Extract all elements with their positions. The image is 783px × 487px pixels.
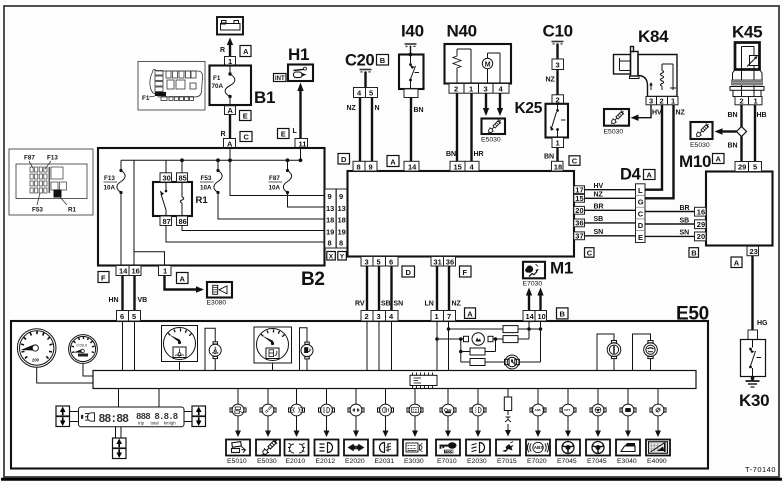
svg-text:SB: SB [680, 217, 690, 224]
wire tachometer to bus [83, 363, 93, 376]
code box D [402, 266, 415, 277]
ground at C20 [360, 70, 372, 88]
svg-text:ABS: ABS [534, 445, 544, 450]
svg-text:B2: B2 [301, 269, 325, 290]
svg-text:C: C [638, 209, 644, 218]
resistor in row3 [470, 348, 485, 355]
lamp column E2020 [344, 389, 368, 466]
pin 23 bottom [747, 246, 759, 256]
svg-text:E2010: E2010 [286, 458, 306, 465]
wire NZ pin15 to D4-G [585, 192, 636, 199]
svg-text:D: D [406, 268, 412, 277]
svg-text:N: N [375, 105, 380, 112]
temperature gauge [162, 326, 198, 362]
wire row4 to clock [461, 329, 541, 362]
svg-text:18: 18 [554, 162, 562, 171]
svg-text:SN: SN [594, 229, 604, 236]
code box C [569, 156, 580, 166]
code box D [338, 154, 350, 165]
svg-text:14: 14 [408, 162, 417, 171]
pin 16 left [695, 207, 707, 216]
svg-text:E5030: E5030 [690, 142, 710, 149]
svg-text:SN: SN [394, 301, 404, 308]
pin 14 top [404, 161, 419, 171]
wire BN splice to M10-29 [728, 137, 742, 162]
svg-text:E5030: E5030 [481, 137, 501, 144]
button down right [192, 417, 206, 427]
wire N C20-5 to pin 9 [372, 98, 380, 162]
svg-text:1: 1 [469, 85, 473, 94]
wire N40-3 ground arrow [483, 93, 489, 116]
wire HB K45-1 to M10-5 [755, 105, 767, 162]
svg-text:SB: SB [594, 216, 604, 223]
fuel gauge [254, 327, 292, 363]
wire branch to pin 1 [134, 252, 165, 266]
code box C [240, 132, 252, 142]
wire N40-4 ground arrow [497, 93, 503, 116]
svg-text:C: C [587, 248, 593, 257]
svg-text:CITY: CITY [564, 408, 570, 412]
pin 86 [177, 216, 188, 226]
resistor in row1 [503, 326, 518, 333]
wire HN pin14 to E50 pin 6 [109, 276, 123, 311]
svg-text:19: 19 [338, 227, 346, 236]
wire BN I40 to pin 14 [411, 98, 424, 162]
pin 3 top [373, 311, 386, 322]
svg-text:88:88: 88:88 [99, 413, 130, 426]
svg-text:F13: F13 [47, 155, 58, 162]
code box A [387, 156, 399, 167]
svg-text:RV: RV [355, 301, 365, 308]
lamp column E2010 [285, 389, 309, 466]
svg-text:29: 29 [697, 220, 705, 229]
code box A [731, 257, 742, 268]
lamp column E2031 [374, 389, 398, 466]
svg-text:E3030: E3030 [404, 458, 424, 465]
ground at I40 [405, 44, 417, 46]
resistor in row2 [503, 336, 518, 343]
display headlamp icon [81, 413, 95, 421]
pin 14 top [523, 311, 535, 322]
pin 87 [160, 216, 172, 226]
svg-text:F: F [101, 273, 106, 282]
code box A [465, 308, 476, 319]
svg-text:8: 8 [357, 162, 361, 171]
control unit box [348, 171, 575, 257]
svg-text:NZ: NZ [452, 301, 462, 308]
wire F53 output to pin row 18 [218, 193, 325, 220]
wire pin4 to bus [391, 321, 393, 371]
lamp column E7045 city1 [556, 389, 580, 466]
svg-text:B: B [380, 56, 386, 65]
svg-text:ABS: ABS [535, 408, 541, 412]
svg-text:K30: K30 [739, 391, 769, 410]
svg-text:A: A [228, 106, 234, 115]
svg-text:5: 5 [369, 89, 373, 98]
button up right [192, 406, 206, 416]
svg-text:A: A [180, 274, 186, 283]
code box Y [338, 252, 347, 261]
svg-text:F1: F1 [142, 95, 150, 102]
svg-text:R1: R1 [196, 195, 209, 206]
button up left [56, 406, 70, 416]
lamp column E7015 (resistor) [496, 389, 520, 466]
lamp E3080 [207, 282, 233, 307]
wire SB pin36 to D4-D [585, 216, 636, 223]
svg-text:NZ: NZ [347, 105, 357, 112]
code box B [557, 308, 569, 319]
svg-text:E5030: E5030 [257, 458, 277, 465]
svg-text:E7015: E7015 [497, 458, 517, 465]
pin A on junction box top [224, 139, 236, 149]
svg-text:HR: HR [474, 151, 484, 158]
svg-text:F53: F53 [201, 175, 212, 182]
svg-text:30: 30 [163, 174, 171, 183]
svg-text:6: 6 [120, 312, 124, 321]
pin 31 bottom [431, 257, 444, 267]
svg-text:M1: M1 [550, 259, 573, 278]
lamp column E7045 city2 [586, 389, 610, 466]
connector pin column Y [336, 189, 347, 248]
pin 30 [160, 173, 172, 182]
code box A [713, 154, 725, 164]
wire arrow E50-10 up to E7030 [537, 288, 543, 311]
svg-text:0:00.0: 0:00.0 [77, 343, 88, 347]
wire RV pin3 to E50-2 [355, 266, 367, 311]
K45 pin row 2 1 [735, 96, 762, 105]
svg-text:BN: BN [414, 107, 424, 114]
svg-text:8: 8 [339, 239, 343, 248]
wire to pin row 9 [230, 195, 325, 197]
relay contact blade [165, 182, 167, 190]
svg-text:R: R [221, 131, 226, 138]
svg-text:HG: HG [757, 320, 768, 327]
node: feed to H1 pin 11 [299, 148, 303, 162]
C20 pins 4 5 [354, 88, 366, 98]
pin 9 top [365, 161, 377, 171]
svg-text:E2031: E2031 [375, 458, 395, 465]
wire NZ C20-4 to pin 8 [347, 98, 361, 162]
lamp column E2012 [315, 389, 339, 466]
svg-text:E5030: E5030 [604, 129, 624, 136]
svg-text:19: 19 [326, 227, 334, 236]
K84 main body [638, 55, 677, 97]
wire BN K45-2 down [728, 105, 742, 127]
svg-text:20: 20 [697, 232, 705, 241]
resistor in row4 [470, 359, 485, 366]
wire row4 vertical branch [460, 339, 462, 362]
maxi fuse box B1 [210, 66, 252, 106]
stub to pin 3 [556, 44, 558, 59]
wire row1 pin7 to pin10 [447, 327, 543, 331]
svg-text:86: 86 [179, 217, 187, 226]
internal top bus wire [121, 159, 301, 161]
relay R1 [153, 173, 208, 226]
wire BR pin20 to D4-C [585, 204, 636, 211]
wire pin7 to bus [448, 321, 450, 371]
svg-text:M: M [485, 61, 491, 68]
svg-text:G: G [638, 198, 644, 207]
svg-text:E: E [638, 233, 643, 242]
svg-text:3: 3 [365, 257, 369, 266]
wire HG M10-23 to K30 [753, 256, 769, 330]
svg-text:NZ: NZ [546, 77, 556, 84]
svg-text:NZ: NZ [676, 110, 686, 117]
fuse F87 10A [269, 158, 325, 207]
speedometer [17, 329, 56, 368]
pin 10 top [535, 311, 547, 322]
svg-text:2: 2 [660, 96, 664, 105]
svg-text:29: 29 [738, 163, 746, 172]
microprocessor chip [410, 373, 437, 389]
svg-text:85: 85 [179, 174, 187, 183]
E50 box [11, 321, 708, 469]
svg-text:5: 5 [753, 163, 757, 172]
pin 3 [552, 59, 564, 70]
lamp column E4090 [646, 389, 670, 466]
svg-text:X: X [329, 254, 334, 261]
bottom thick border bar [1, 478, 782, 481]
svg-text:36: 36 [446, 257, 454, 266]
svg-text:18: 18 [338, 216, 346, 225]
K84 plug body [614, 47, 640, 79]
code box B [377, 55, 389, 66]
pin 1 [552, 138, 564, 148]
wire pin10 down to row1 [540, 321, 542, 329]
svg-text:2: 2 [740, 96, 744, 105]
svg-text:SN: SN [680, 230, 690, 237]
svg-text:F1: F1 [213, 75, 221, 82]
relay coil line [181, 182, 183, 197]
svg-text:A: A [647, 171, 653, 180]
pin 15 right [574, 194, 585, 203]
K30 connector [748, 330, 758, 340]
wire relay 87 to pin row 8 [166, 226, 325, 243]
code box INT [274, 74, 287, 83]
svg-text:L: L [638, 186, 643, 195]
wire HV K84-2 to D4-L [645, 105, 662, 190]
code box F [460, 266, 472, 277]
pin 1 bottom of junction box [159, 266, 172, 276]
main supply bus bar [93, 371, 696, 389]
svg-text:200: 200 [32, 358, 40, 363]
svg-text:9: 9 [339, 192, 343, 201]
code box B [689, 248, 699, 258]
svg-text:9: 9 [328, 192, 332, 201]
svg-text:9: 9 [369, 162, 373, 171]
M10 box [706, 172, 773, 246]
pin 4 top [386, 311, 399, 322]
svg-text:E3080: E3080 [207, 300, 227, 307]
wire speedometer to bus [37, 367, 93, 383]
svg-text:16: 16 [697, 208, 705, 217]
svg-text:C: C [572, 157, 578, 166]
svg-text:1: 1 [754, 96, 758, 105]
pin 1 of B1 [225, 57, 236, 67]
svg-text:3: 3 [556, 61, 560, 70]
pin 14 bottom of junction box [116, 266, 129, 276]
pin 36 right [574, 219, 585, 228]
tachometer [69, 335, 98, 364]
pin 1 top [431, 311, 444, 322]
wire VB branch vertical to pin 16 [133, 160, 135, 265]
svg-text:E2012: E2012 [316, 458, 336, 465]
svg-text:K84: K84 [638, 27, 669, 46]
wires LCD to left buttons [70, 411, 79, 413]
relay R1 highlighted in inset [54, 190, 62, 198]
svg-text:F87: F87 [24, 155, 35, 162]
pin 6 bottom [386, 257, 399, 267]
svg-text:BR: BR [680, 205, 690, 212]
svg-text:K45: K45 [732, 23, 762, 42]
wire R from node 1 up to battery with arrow [220, 38, 233, 57]
svg-text:BN: BN [446, 151, 456, 158]
svg-text:10A: 10A [200, 185, 212, 192]
svg-text:trip: trip [138, 421, 145, 426]
internal heater resistor [453, 54, 461, 70]
svg-text:7: 7 [447, 312, 451, 321]
wires LCD to right buttons [184, 411, 192, 413]
wire bus to relay 85 [180, 158, 184, 172]
svg-text:2: 2 [454, 85, 458, 94]
code box E [240, 111, 252, 121]
code box C below pins [585, 248, 595, 258]
svg-text:HN: HN [109, 297, 119, 304]
wire relay 86 to pin row 19 [182, 226, 325, 231]
wire F87 output to pin row 13 [288, 193, 325, 208]
wires LCD to bus [118, 389, 120, 408]
wire VB pin16 to E50 pin 5 [135, 276, 148, 311]
wire NZ K84-1 to D4-G [645, 105, 686, 199]
wire R from B1 down to junction box [221, 115, 231, 139]
K84 pin row 3 2 1 [646, 96, 678, 105]
right indicator lamp 1 [597, 334, 621, 371]
pin 7 top [444, 311, 456, 322]
I40 connector [404, 89, 418, 98]
svg-text:km/gh: km/gh [164, 421, 176, 426]
svg-text:E: E [243, 112, 248, 121]
pin 5 top [129, 311, 141, 322]
wire bus to relay 30 [165, 160, 167, 173]
svg-text:E3040: E3040 [617, 458, 637, 465]
svg-text:B: B [691, 248, 697, 257]
horn H1 [288, 45, 313, 81]
svg-text:1: 1 [435, 312, 439, 321]
pin 6 top [117, 311, 129, 322]
pin 85 [177, 173, 188, 182]
svg-text:D: D [638, 221, 644, 230]
svg-text:E7045: E7045 [587, 458, 607, 465]
svg-text:HV: HV [652, 110, 662, 117]
pin 20 left [695, 232, 707, 241]
ground point E5030 (K45) [690, 122, 713, 149]
fuse F1 highlighted [155, 92, 166, 96]
svg-text:1: 1 [671, 96, 675, 105]
svg-text:20: 20 [575, 206, 583, 215]
ground at C10 [552, 42, 564, 44]
button down center [113, 449, 127, 459]
code box E [278, 129, 290, 139]
pin 37 right [574, 232, 585, 241]
svg-text:15: 15 [454, 162, 462, 171]
lamp column E3040 [616, 389, 640, 466]
svg-text:14: 14 [119, 267, 128, 276]
svg-text:R: R [220, 47, 225, 54]
svg-text:8: 8 [328, 239, 332, 248]
svg-text:10A: 10A [269, 185, 281, 192]
svg-text:31: 31 [434, 257, 442, 266]
svg-text:E5010: E5010 [227, 458, 247, 465]
wire pin3 to bus [378, 321, 380, 371]
wire pin1 to bus [436, 321, 438, 371]
svg-text:C: C [244, 133, 250, 142]
coolant warning indicator [205, 328, 221, 370]
fuse F13 10A [104, 160, 126, 265]
code box A [177, 273, 189, 284]
pin 3 bottom [361, 257, 373, 267]
right indicator lamp 2 [633, 334, 658, 371]
svg-text:2: 2 [365, 312, 369, 321]
svg-text:1: 1 [163, 267, 167, 276]
wire SN D4-E to M10-20 [645, 230, 695, 237]
svg-text:B1: B1 [254, 88, 275, 107]
svg-text:18: 18 [326, 216, 334, 225]
pin 2 top [361, 311, 373, 322]
svg-text:HV: HV [594, 183, 604, 190]
wire fuel gauge to bus [272, 363, 274, 371]
svg-text:E7010: E7010 [437, 458, 457, 465]
wire row3 resistor branch [459, 339, 496, 353]
clock symbol [505, 355, 520, 369]
N40 pin row 2 1 3 4 [449, 84, 509, 94]
svg-text:23: 23 [750, 247, 758, 256]
wire pin14 down to row1 [528, 321, 530, 329]
svg-text:H1: H1 [288, 45, 309, 64]
splice node diamond [737, 127, 747, 137]
connector pin column X [325, 189, 336, 248]
pin A below B1 [225, 106, 236, 115]
wire L from pin 11 up to H1 with arrow [293, 83, 304, 149]
code box F [98, 272, 109, 283]
battery A1 [217, 17, 243, 35]
pin 2 [552, 95, 564, 105]
svg-text:5: 5 [377, 257, 381, 266]
fuse F53 10A [200, 158, 325, 219]
pin 15 top [450, 161, 465, 171]
fuel warning indicator [300, 328, 314, 371]
lamp column E3030 [403, 389, 427, 466]
grey band [732, 80, 763, 85]
wire from pin 1 to E3080 with arrow [165, 276, 205, 293]
wire pin5 to bus [134, 321, 136, 371]
pin 20 right [574, 206, 585, 215]
svg-text:36: 36 [575, 219, 583, 228]
pin 4 top [465, 161, 479, 171]
svg-text:INT: INT [275, 76, 285, 82]
code box A [644, 170, 656, 180]
LCD display module [79, 407, 185, 427]
wire temp gauge to bus [179, 362, 181, 371]
svg-text:10: 10 [538, 312, 546, 321]
svg-text:C20: C20 [345, 52, 374, 70]
svg-text:BN: BN [728, 143, 738, 150]
svg-text:Y: Y [340, 254, 345, 261]
svg-text:A: A [734, 258, 740, 267]
svg-text:F53: F53 [32, 207, 43, 214]
svg-text:3: 3 [484, 85, 488, 94]
wire BN K25 to pin 18 [544, 148, 558, 162]
svg-text:13: 13 [338, 204, 346, 213]
